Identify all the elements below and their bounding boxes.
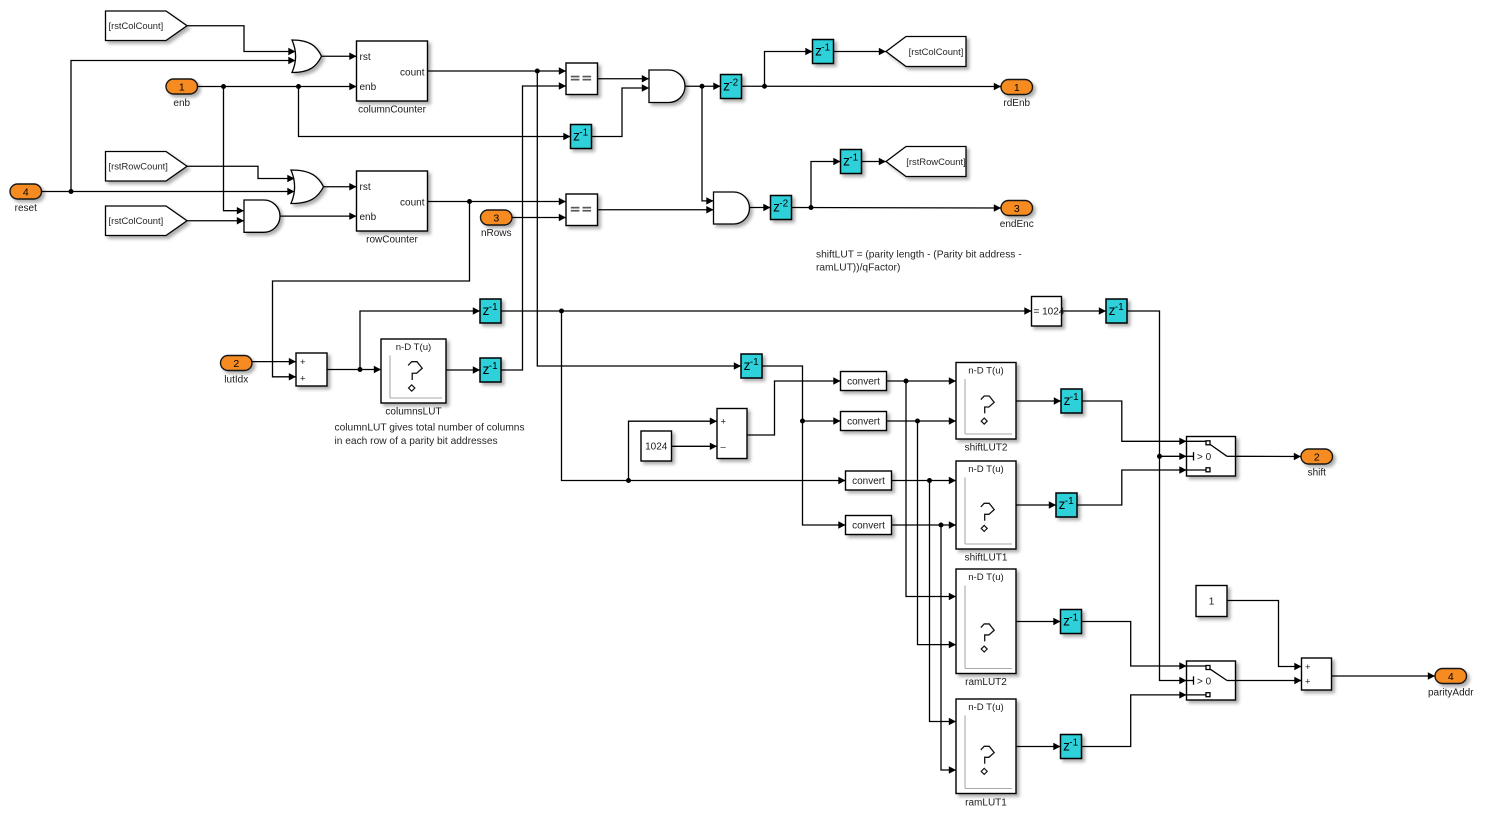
relational operator == (row compare) xyxy=(566,194,598,226)
svg-text:rst: rst xyxy=(360,182,371,193)
svg-text:> 0: > 0 xyxy=(1197,452,1212,463)
switch block (shift select) xyxy=(1187,437,1236,477)
wire [rstRowCount] to or-gate xyxy=(187,166,295,182)
svg-text:> 0: > 0 xyxy=(1197,676,1212,687)
svg-text:-1: -1 xyxy=(750,357,759,368)
wire reset branch to columnCounter or-gate xyxy=(71,57,296,192)
unit delay z-1 (count branch) xyxy=(741,354,762,378)
lookup table ramLUT1 xyxy=(956,699,1016,809)
wire branch down to convert3 xyxy=(562,311,846,484)
wire enb branch to unit delay xyxy=(299,87,571,141)
wire delay to switch1 in1 xyxy=(1082,401,1187,445)
and gate U1 (rdEnb path) xyxy=(649,70,685,103)
svg-text:shiftLUT = (parity length - (P: shiftLUT = (parity length - (Parity bit … xyxy=(816,250,1022,261)
unit delay z-1 (sum branch) xyxy=(480,299,501,323)
wire convert3 branch to ramLUT1 in1 xyxy=(930,481,957,726)
svg-text:ramLUT))/qFactor): ramLUT))/qFactor) xyxy=(816,263,900,274)
svg-text:[rstColCount]: [rstColCount] xyxy=(109,20,164,31)
svg-text:n-D T(u): n-D T(u) xyxy=(396,342,432,353)
wire branch up to unit delay 2 xyxy=(811,158,841,208)
wire convert1 branch to ramLUT2 in1 xyxy=(906,381,956,600)
svg-text:n-D T(u): n-D T(u) xyxy=(968,366,1004,377)
svg-text:shiftLUT2: shiftLUT2 xyxy=(965,443,1008,454)
svg-text:lutIdx: lutIdx xyxy=(224,375,248,386)
delay z-2 (rdEnb) xyxy=(721,75,742,99)
wire switch2 to sum xyxy=(1236,677,1302,684)
svg-text:+: + xyxy=(300,357,306,368)
wire convert4 to shiftLUT1 in2 xyxy=(892,521,957,528)
wire branch up to sum plus xyxy=(629,418,718,481)
svg-text:convert: convert xyxy=(847,417,880,428)
wire or-gate to columnCounter rst xyxy=(322,53,357,60)
svg-text:-2: -2 xyxy=(779,199,788,210)
constant 1 xyxy=(1196,586,1227,617)
wire convert4 branch to ramLUT1 in2 xyxy=(941,525,956,774)
svg-text:2: 2 xyxy=(1314,451,1320,463)
goto tag [rstColCount] xyxy=(886,37,966,67)
from tag [rstColCount] (lower) xyxy=(106,206,188,236)
and gate U2 (endEnc path) xyxy=(714,192,750,224)
wire delay to switch2 in1 xyxy=(1082,622,1187,670)
sum block (switch2 + 1) xyxy=(1302,658,1332,690)
constant 1024 xyxy=(641,431,672,461)
unit delay z-1 (rstRowCount goto) xyxy=(841,150,862,174)
svg-text:n-D T(u): n-D T(u) xyxy=(968,464,1004,475)
svg-text:= 1024: = 1024 xyxy=(1034,307,1065,318)
outport 3 "endEnc" xyxy=(1000,201,1034,231)
from tag [rstRowCount] xyxy=(106,152,188,182)
svg-text:enb: enb xyxy=(360,82,377,93)
convert block 1 xyxy=(841,372,887,391)
svg-text:-1: -1 xyxy=(1069,613,1078,624)
sum block (lutIdx + count) xyxy=(296,353,327,386)
unit delay z-1 (rstColCount goto) xyxy=(813,40,834,64)
wire 1024 to sum minus xyxy=(672,443,718,450)
svg-text:convert: convert xyxy=(847,377,880,388)
svg-text:rst: rst xyxy=(360,52,371,63)
svg-text:3: 3 xyxy=(1014,203,1020,215)
wire sum to parityAddr xyxy=(1332,672,1436,679)
svg-text:count: count xyxy=(400,68,425,79)
or gate (rowCounter rst) xyxy=(291,170,324,204)
svg-text:-1: -1 xyxy=(1065,496,1074,507)
svg-text:-1: -1 xyxy=(821,43,830,54)
or gate (columnCounter rst) xyxy=(292,40,322,73)
svg-text:enb: enb xyxy=(173,98,190,109)
convert block 2 xyxy=(841,412,887,431)
wire [rstColCount] to or-gate in1 xyxy=(187,26,296,55)
lookup table ramLUT2 xyxy=(956,569,1016,688)
wire switch1 to shift xyxy=(1236,453,1302,460)
convert block 3 xyxy=(846,471,892,490)
svg-text:-1: -1 xyxy=(489,302,498,313)
svg-text:1: 1 xyxy=(1209,597,1215,608)
svg-text:-1: -1 xyxy=(489,361,498,372)
inport 1 "enb" xyxy=(166,79,198,109)
svg-text:shiftLUT1: shiftLUT1 xyxy=(965,553,1008,564)
outport 4 "parityAddr" xyxy=(1428,669,1474,699)
svg-text:-2: -2 xyxy=(729,78,738,89)
unit delay z-1 (ramLUT1 out) xyxy=(1061,735,1082,759)
inport 4 "reset" xyxy=(10,184,42,214)
svg-text:-1: -1 xyxy=(1115,302,1124,313)
svg-text:n-D T(u): n-D T(u) xyxy=(968,702,1004,713)
svg-text:-1: -1 xyxy=(849,153,858,164)
unit delay z-1 (shiftLUT1 out) xyxy=(1056,493,1077,517)
outport 1 "rdEnb" xyxy=(1001,80,1033,110)
wire enb branch to and-gate xyxy=(224,87,245,215)
wire convert2 branch to ramLUT2 in2 xyxy=(918,421,957,648)
compare to constant = 1024 xyxy=(1032,297,1065,327)
svg-text:[rstColCount]: [rstColCount] xyxy=(909,46,964,57)
wire and-gate 2 to z-2 delay xyxy=(750,204,771,211)
delay z-2 (endEnc) xyxy=(771,196,792,220)
svg-text:+: + xyxy=(721,417,727,428)
wire convert2 to shiftLUT2 in2 xyxy=(887,417,957,424)
svg-text:4: 4 xyxy=(1448,671,1454,683)
wire [rstColCount] to and-gate xyxy=(187,217,244,224)
svg-text:4: 4 xyxy=(23,186,29,198)
wire == to and-gate in1 xyxy=(598,75,650,82)
inport 3 "nRows" xyxy=(481,210,513,239)
svg-text:convert: convert xyxy=(852,476,885,487)
wire delay to convert4 xyxy=(762,366,846,529)
outport 2 "shift" xyxy=(1301,449,1333,479)
wire branch to convert2 xyxy=(803,417,841,424)
svg-text:rowCounter: rowCounter xyxy=(366,235,418,246)
from tag [rstColCount] (top) xyxy=(106,11,188,41)
wire lutIdx to sum xyxy=(252,358,296,365)
svg-text:columnLUT gives total number o: columnLUT gives total number of columns xyxy=(335,423,525,434)
wire branch to and-gate 2 xyxy=(702,86,714,204)
svg-text:-1: -1 xyxy=(1069,738,1078,749)
svg-text:parityAddr: parityAddr xyxy=(1428,688,1474,699)
switch block (parity select) xyxy=(1187,661,1236,700)
lookup table columnsLUT xyxy=(381,339,446,418)
wire delay to switch1 in3 xyxy=(1077,466,1187,505)
svg-text:count: count xyxy=(400,198,425,209)
wire enb to columnCounter xyxy=(198,83,357,90)
wire unit delay to goto tag xyxy=(834,48,887,55)
svg-text:ramLUT1: ramLUT1 xyxy=(965,798,1007,809)
wire rowCounter count to == xyxy=(428,198,567,205)
relational operator == (column compare) xyxy=(566,63,598,95)
wire long vertical to switch2 xyxy=(1160,456,1187,684)
wire ramLUT2 to delay xyxy=(1016,618,1061,625)
wire columnsLUT delay to == in2 xyxy=(501,82,566,370)
wire delay to compare-to-constant xyxy=(501,307,1032,314)
svg-text:rdEnb: rdEnb xyxy=(1003,98,1030,109)
wire delay to switch2 in3 xyxy=(1082,691,1187,746)
wire shiftLUT1 to delay xyxy=(1016,501,1056,508)
svg-text:+: + xyxy=(300,373,306,384)
wire z-2 delay to rdEnb xyxy=(742,83,1002,90)
svg-text:columnCounter: columnCounter xyxy=(358,105,426,116)
wire or-gate to rowCounter rst xyxy=(324,183,357,190)
unit delay z-1 (enb delay) xyxy=(571,125,592,149)
svg-text:ramLUT2: ramLUT2 xyxy=(965,677,1007,688)
wire and-gate to rowCounter enb xyxy=(280,212,357,219)
wire columnCounter count to == xyxy=(428,67,567,74)
svg-text:endEnc: endEnc xyxy=(1000,219,1034,230)
wire delay to switches (long vertical) xyxy=(1127,311,1187,460)
inport 2 "lutIdx" xyxy=(221,356,253,386)
svg-text:+: + xyxy=(1305,676,1311,687)
convert block 4 xyxy=(846,516,892,535)
unit delay z-1 (columnsLUT out) xyxy=(480,358,501,382)
svg-text:-1: -1 xyxy=(1070,392,1079,403)
subsystem rowCounter xyxy=(357,171,428,246)
svg-text:[rstRowCount]: [rstRowCount] xyxy=(109,161,168,172)
svg-text:in each row of a parity bit ad: in each row of a parity bit addresses xyxy=(335,436,498,447)
wire sum branch to unit delay xyxy=(360,307,480,369)
wire sum to columnsLUT xyxy=(327,366,381,373)
wire count branch down to unit delay xyxy=(537,71,741,370)
wire reset to rowCounter or-gate xyxy=(42,188,295,195)
svg-text:reset: reset xyxy=(15,203,37,214)
svg-text:2: 2 xyxy=(233,358,239,370)
wire shiftLUT2 to delay xyxy=(1016,397,1061,404)
wire constant 1 to sum xyxy=(1227,601,1302,671)
annotation columnLUT description xyxy=(335,423,525,448)
svg-text:n-D T(u): n-D T(u) xyxy=(968,572,1004,583)
annotation shiftLUT formula xyxy=(816,250,1022,274)
wire z-2 delay to endEnc xyxy=(792,204,1002,211)
wire nRows to == in2 xyxy=(512,214,566,221)
wire delay to and-gate in2 xyxy=(592,84,650,136)
wire convert1 to shiftLUT2 in1 xyxy=(887,377,957,384)
wire == to and-gate 2 in2 xyxy=(598,206,714,213)
sum block (1024 - x) xyxy=(717,409,747,459)
unit delay z-1 (ramLUT2 out) xyxy=(1061,610,1082,634)
lookup table shiftLUT1 xyxy=(956,461,1016,564)
svg-text:[rstRowCount]: [rstRowCount] xyxy=(906,156,965,167)
and gate (rowCounter enb) xyxy=(244,200,280,232)
wire and-gate to z-2 delay xyxy=(685,83,721,90)
wire unit delay to goto tag 2 xyxy=(862,158,887,165)
wire count branch to sum xyxy=(273,202,470,381)
wire branch up to unit delay xyxy=(765,48,813,86)
svg-text:1024: 1024 xyxy=(645,442,668,453)
wire sum to convert1 xyxy=(747,377,841,435)
svg-text:enb: enb xyxy=(360,212,377,223)
lookup table shiftLUT2 xyxy=(956,363,1016,454)
svg-text:nRows: nRows xyxy=(481,228,512,239)
unit delay z-1 (compare out) xyxy=(1106,299,1127,323)
wire convert3 to shiftLUT1 in1 xyxy=(892,477,957,484)
svg-text:–: – xyxy=(721,442,727,453)
svg-text:convert: convert xyxy=(852,521,885,532)
svg-text:shift: shift xyxy=(1308,468,1327,479)
svg-text:-1: -1 xyxy=(579,128,588,139)
svg-text:1: 1 xyxy=(1014,82,1020,94)
unit delay z-1 (shiftLUT2 out) xyxy=(1061,389,1082,413)
svg-text:+: + xyxy=(1305,662,1311,673)
wire columnsLUT to unit delay xyxy=(446,366,480,373)
subsystem columnCounter xyxy=(357,41,428,116)
wire ramLUT1 to delay xyxy=(1016,743,1061,750)
goto tag [rstRowCount] xyxy=(886,147,966,177)
svg-text:[rstColCount]: [rstColCount] xyxy=(109,215,164,226)
svg-text:columnsLUT: columnsLUT xyxy=(385,407,441,418)
wire compare to unit delay xyxy=(1062,307,1107,314)
svg-text:1: 1 xyxy=(179,81,185,93)
svg-text:3: 3 xyxy=(493,212,499,224)
